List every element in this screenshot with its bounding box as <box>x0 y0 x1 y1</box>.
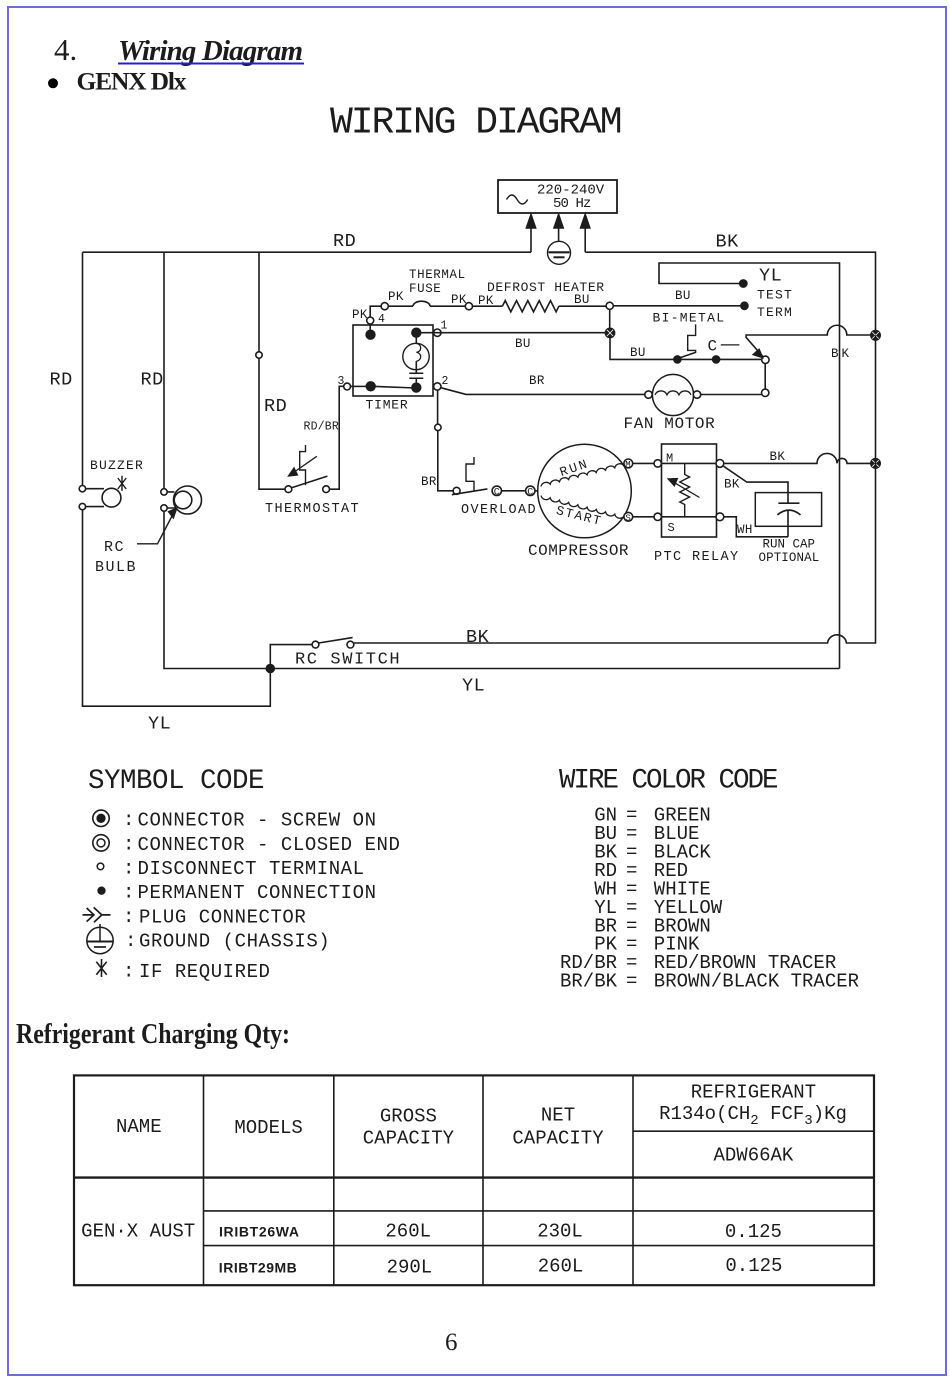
svg-text:S: S <box>668 521 675 535</box>
svg-text::: : <box>123 858 134 880</box>
svg-text:6: 6 <box>445 1329 458 1356</box>
symbol connector screw-on <box>93 810 109 826</box>
svg-text::: : <box>123 834 134 856</box>
svg-text:0.125: 0.125 <box>725 1255 782 1277</box>
svg-text:DISCONNECT TERMINAL: DISCONNECT TERMINAL <box>138 858 365 880</box>
wire BK diagonal to run cap <box>724 466 789 503</box>
svg-text:BROWN/BLACK TRACER: BROWN/BLACK TRACER <box>654 970 859 992</box>
svg-text:YL: YL <box>462 676 485 697</box>
svg-text:TIMER: TIMER <box>366 398 409 413</box>
PTC relay box <box>654 444 740 565</box>
timer pin 1 <box>412 320 448 338</box>
test terminal BU <box>741 302 748 309</box>
connector C2 (screw) <box>526 486 535 499</box>
wire BR pin2 down to overload <box>438 390 454 491</box>
svg-text:BI-METAL: BI-METAL <box>653 311 726 326</box>
wire RD left vertical 1 <box>82 252 84 485</box>
svg-text:BR: BR <box>529 374 545 388</box>
svg-text:BU: BU <box>574 293 590 307</box>
wire RD vertical 3 to thermostat <box>259 252 285 489</box>
svg-text:S: S <box>625 513 630 523</box>
wire YL test term loop <box>659 263 840 669</box>
svg-text:R134o(CH2 FCF3)Kg: R134o(CH2 FCF3)Kg <box>659 1103 847 1129</box>
svg-text:RD: RD <box>333 231 356 252</box>
svg-text:C: C <box>494 488 500 499</box>
wire fan motor to bimetal pivot <box>701 394 762 396</box>
thermostat TH1 <box>265 445 360 517</box>
symbol disconnect terminal <box>97 863 104 870</box>
wire to thermal fuse <box>388 305 413 307</box>
svg-text:RUN CAP: RUN CAP <box>763 538 816 552</box>
svg-text:BK: BK <box>831 347 852 361</box>
wire C2 to compressor <box>535 490 539 492</box>
svg-text:PK: PK <box>388 290 404 304</box>
connector screw-on at BU junction <box>605 328 614 337</box>
svg-text:BU: BU <box>515 337 531 351</box>
svg-text:PK: PK <box>352 308 368 322</box>
bimetal defrost thermostat <box>653 311 770 364</box>
HEADINGS <box>48 32 621 144</box>
timer defrost lamp <box>403 337 429 383</box>
svg-text:0.125: 0.125 <box>725 1221 782 1243</box>
PTC terminal S right <box>716 513 724 521</box>
label C with pointer <box>708 338 740 356</box>
wire fuse to terminal <box>430 305 465 307</box>
rc switch <box>295 638 401 670</box>
svg-text:TEST: TEST <box>757 288 793 303</box>
disconnect terminal fan right <box>762 389 769 396</box>
svg-text:RC SWITCH: RC SWITCH <box>295 651 401 670</box>
timer mid contact <box>412 383 421 392</box>
wire C1-C2 <box>502 490 526 492</box>
svg-text:BULB: BULB <box>95 559 137 576</box>
arrow on common wire <box>753 350 762 358</box>
svg-text:YL: YL <box>148 714 171 735</box>
svg-text:OPTIONAL: OPTIONAL <box>759 551 820 565</box>
svg-text:1: 1 <box>441 320 448 333</box>
svg-text:CAPACITY: CAPACITY <box>512 1128 604 1150</box>
svg-text:260L: 260L <box>538 1256 584 1278</box>
svg-text:Wiring Diagram: Wiring Diagram <box>118 35 303 67</box>
PTC terminal M right <box>716 460 724 468</box>
svg-text:WIRING DIAGRAM: WIRING DIAGRAM <box>330 101 621 144</box>
svg-text:WIRE COLOR CODE: WIRE COLOR CODE <box>559 766 778 797</box>
svg-text:GROSS: GROSS <box>380 1106 437 1128</box>
label TEST TERM <box>757 288 793 321</box>
wire terminal to heater <box>473 305 503 307</box>
svg-text:BR: BR <box>421 475 437 489</box>
svg-text:PTC RELAY: PTC RELAY <box>654 550 740 565</box>
compressor terminal S <box>624 512 633 523</box>
svg-text:IRIBT29MB: IRIBT29MB <box>219 1260 297 1276</box>
wire BK from PTC M to right bus <box>724 453 871 463</box>
REFRIGERANT TABLE <box>16 1019 874 1285</box>
wire RD left vertical 2 <box>163 252 165 489</box>
disconnect terminal PK <box>381 303 388 310</box>
svg-text:BU: BU <box>630 346 646 360</box>
wire RD/BR thermostat to timer pin3 <box>330 386 344 489</box>
permanent connection joint <box>266 665 274 673</box>
svg-text:CONNECTOR - SCREW ON: CONNECTOR - SCREW ON <box>138 810 377 832</box>
power supply box 220-240V 50Hz <box>498 180 617 213</box>
wire M to PTC <box>633 462 654 464</box>
svg-text:C: C <box>527 488 533 499</box>
svg-text:RD: RD <box>50 370 73 391</box>
wire rc switch to bottom joint <box>270 645 312 665</box>
svg-text:CONNECTOR - CLOSED END: CONNECTOR - CLOSED END <box>138 834 401 856</box>
svg-text:GEN·X AUST: GEN·X AUST <box>81 1221 195 1243</box>
svg-text:BK: BK <box>466 627 490 648</box>
timer pin 2 <box>434 375 449 390</box>
PTC terminal M left <box>654 460 661 467</box>
defrost heater R-heat <box>487 280 605 312</box>
wire RD top <box>83 251 532 253</box>
disconnect terminal PK2 <box>465 303 472 310</box>
supply arrow R (BK phase) <box>581 215 590 253</box>
svg-text:YL: YL <box>759 266 782 287</box>
wire RD vert1 lower <box>83 510 271 706</box>
connector screw-on right bus mid <box>871 459 880 468</box>
wire WH from PTC S to cap <box>724 517 788 537</box>
svg-text:4.: 4. <box>54 32 77 67</box>
svg-text:REFRIGERANT: REFRIGERANT <box>691 1082 816 1104</box>
svg-text:RD/BR: RD/BR <box>304 421 340 434</box>
test terminal YL <box>740 280 747 287</box>
wire heater to junction <box>559 305 606 307</box>
WIRE COLOR CODE SECTION <box>559 766 859 993</box>
fan motor <box>624 374 716 433</box>
svg-text:RD: RD <box>141 370 164 391</box>
compressor terminal M <box>624 459 633 470</box>
timer switch arm <box>371 386 417 388</box>
wire BU timer pin1 <box>421 332 606 334</box>
PTC internal S line <box>662 516 717 518</box>
svg-text:BK: BK <box>724 478 740 492</box>
ground (chassis) symbol under supply <box>548 241 571 264</box>
timer pin 3 <box>338 375 376 391</box>
svg-text:290L: 290L <box>387 1257 433 1279</box>
svg-text:CAPACITY: CAPACITY <box>363 1128 455 1150</box>
svg-text::: : <box>125 930 136 952</box>
overload protector <box>452 457 537 518</box>
svg-text:BU: BU <box>675 289 691 303</box>
thermal fuse F1 <box>409 268 466 306</box>
PTC internal M line <box>662 462 717 464</box>
svg-text:COMPRESSOR: COMPRESSOR <box>528 542 629 560</box>
connector screw-on right bus top <box>871 331 880 340</box>
wire S to PTC <box>633 516 654 518</box>
svg-text:OVERLOAD: OVERLOAD <box>461 503 537 518</box>
disconnect terminal on BR <box>435 424 441 430</box>
supply arrow mid (earth) <box>554 215 563 242</box>
svg-text:RC: RC <box>104 539 125 556</box>
symbol if required (asterisk) <box>96 959 106 977</box>
disconnect terminal on RD vert3 <box>256 352 262 358</box>
svg-text:RUN: RUN <box>558 456 591 480</box>
PTC thermistor <box>669 463 700 516</box>
wire YL bottom <box>274 668 839 670</box>
svg-text:Refrigerant Charging Qty:: Refrigerant Charging Qty: <box>16 1019 290 1050</box>
wire right bus lower <box>354 335 876 643</box>
svg-text:260L: 260L <box>385 1221 431 1243</box>
wire BR pin2 to fan motor <box>441 388 645 395</box>
PTC terminal S left <box>654 513 661 520</box>
svg-text::: : <box>123 809 134 831</box>
svg-text:230L: 230L <box>537 1221 583 1243</box>
svg-text::: : <box>123 906 134 928</box>
buzzer B1 <box>79 458 144 510</box>
svg-text:WH: WH <box>737 523 753 537</box>
connector closed-end junction <box>606 302 613 309</box>
svg-text:M: M <box>625 460 630 470</box>
svg-text:BK: BK <box>716 232 740 253</box>
svg-text:4: 4 <box>378 313 385 326</box>
wire pivot vertical <box>764 364 766 390</box>
svg-text:IRIBT26WA: IRIBT26WA <box>219 1224 299 1240</box>
RC bulb <box>95 486 202 576</box>
wire BU down to bimetal <box>610 309 674 359</box>
svg-text:RD: RD <box>264 396 287 417</box>
wire junction to test terminal <box>613 305 741 307</box>
svg-text:TERM: TERM <box>757 305 793 320</box>
timer box <box>353 325 433 413</box>
svg-text:C: C <box>708 338 718 356</box>
svg-text:BK: BK <box>770 450 786 464</box>
timer pin 4 <box>352 308 385 339</box>
svg-text:MODELS: MODELS <box>234 1117 302 1139</box>
svg-text:NET: NET <box>541 1105 575 1127</box>
svg-text:3: 3 <box>338 375 345 388</box>
svg-text:PERMANENT CONNECTION: PERMANENT CONNECTION <box>138 882 377 904</box>
wire PK fuse line <box>370 306 381 317</box>
wire RD vert2 lower (to bottom joint) <box>164 511 266 668</box>
compressor motor <box>528 444 631 560</box>
svg-text:FAN MOTOR: FAN MOTOR <box>624 415 716 433</box>
symbol connector closed-end <box>93 835 109 851</box>
svg-text:FUSE: FUSE <box>409 282 441 296</box>
svg-text:2: 2 <box>442 375 449 388</box>
svg-text::: : <box>123 882 134 904</box>
svg-text:SYMBOL CODE: SYMBOL CODE <box>88 766 264 797</box>
svg-text:BUZZER: BUZZER <box>90 458 144 473</box>
svg-text:PLUG CONNECTOR: PLUG CONNECTOR <box>139 907 306 929</box>
svg-text:IF REQUIRED: IF REQUIRED <box>139 961 270 983</box>
svg-text:BR/BK: BR/BK <box>560 970 618 992</box>
supply arrow L (RD phase) <box>526 215 535 253</box>
svg-text:THERMAL: THERMAL <box>409 268 466 282</box>
svg-text:=: = <box>626 970 637 992</box>
symbol ground chassis <box>87 924 114 954</box>
connector C1 (screw) <box>492 486 501 499</box>
svg-text:NAME: NAME <box>116 1116 162 1138</box>
SYMBOL CODE SECTION <box>83 766 401 983</box>
svg-text:ADW66AK: ADW66AK <box>713 1145 793 1167</box>
wire bimetal common to right bus <box>746 325 871 356</box>
symbol plug connector <box>83 907 111 922</box>
svg-text:THERMOSTAT: THERMOSTAT <box>265 502 360 517</box>
svg-text:GROUND (CHASSIS): GROUND (CHASSIS) <box>139 931 330 953</box>
svg-text:PK: PK <box>451 293 467 307</box>
svg-text::: : <box>123 961 134 983</box>
svg-text:50 Hz: 50 Hz <box>553 196 591 212</box>
wire BK top <box>585 252 875 335</box>
symbol permanent connection <box>98 887 105 894</box>
svg-text:GENX Dlx: GENX Dlx <box>77 67 187 96</box>
run capacitor <box>755 493 821 565</box>
